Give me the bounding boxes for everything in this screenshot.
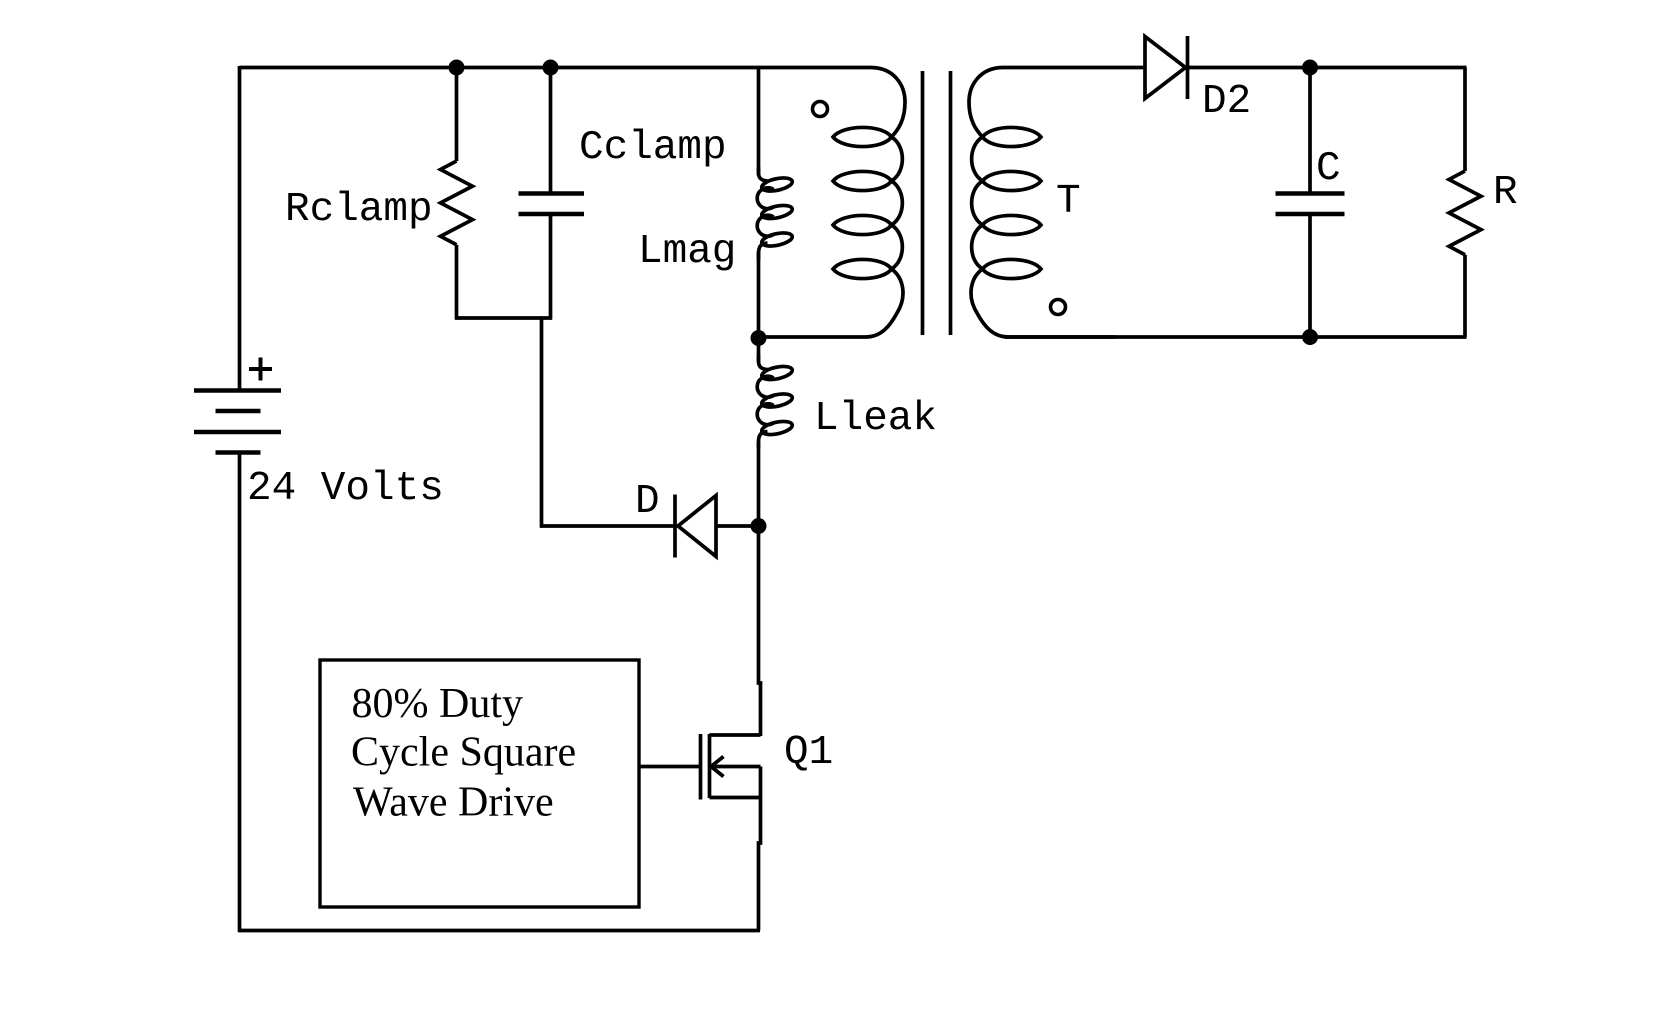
wire gate — [639, 765, 701, 769]
capacitor C — [1276, 194, 1345, 215]
diode D2 triangle — [1145, 37, 1186, 99]
svg-text:Cclamp: Cclamp — [579, 125, 727, 171]
resistor Rclamp zigzag — [441, 161, 473, 245]
svg-text:T: T — [1056, 179, 1081, 225]
svg-text:Cycle Square: Cycle Square — [351, 730, 576, 776]
node top rail / Cclamp junction dot — [543, 60, 559, 76]
battery B1 24 Volts — [194, 391, 281, 453]
svg-text:Wave Drive: Wave Drive — [353, 780, 554, 826]
svg-text:Lleak: Lleak — [814, 396, 937, 442]
wire Cclamp bottom stub — [549, 214, 553, 320]
svg-text:24 Volts: 24 Volts — [247, 466, 444, 512]
transformer T secondary winding — [969, 68, 1116, 338]
wire node to Q1 drain — [759, 526, 761, 736]
transistor Q1 MOSFET — [701, 734, 761, 931]
wire R top stub — [1463, 68, 1467, 172]
wire C top stub — [1308, 68, 1312, 194]
transformer primary polarity dot — [813, 102, 828, 117]
wire left column upper — [238, 66, 242, 390]
svg-text:C: C — [1316, 146, 1341, 192]
resistor R zigzag — [1449, 171, 1481, 255]
wire Lmag top stub — [757, 68, 761, 176]
drive box 80% Duty Cycle Square Wave Drive — [320, 660, 639, 907]
wire Cclamp top stub — [549, 68, 553, 194]
svg-text:R: R — [1493, 170, 1518, 216]
transformer T primary winding — [759, 68, 906, 338]
wire left column lower — [238, 453, 242, 933]
svg-text:D2: D2 — [1202, 79, 1251, 125]
node output- junction dot — [1302, 329, 1318, 345]
wire Lleak to drain node — [757, 442, 761, 526]
node top rail / Rclamp junction dot — [449, 60, 465, 76]
svg-text:80% Duty: 80% Duty — [352, 681, 524, 727]
wire top rail — [240, 66, 873, 70]
svg-text:Rclamp: Rclamp — [285, 187, 433, 233]
diode D cathode bar — [673, 495, 677, 558]
wire clamp bottom joiner — [455, 316, 552, 320]
svg-text:Q1: Q1 — [784, 730, 833, 776]
wire Lmag to node A — [757, 252, 761, 340]
wire bottom rail — [238, 929, 760, 933]
wire Rclamp bottom stub — [455, 245, 459, 320]
diode D triangle — [678, 496, 716, 557]
inductor Lleak coil — [757, 355, 773, 448]
node A junction dot — [751, 330, 767, 346]
diode D2 cathode bar — [1186, 36, 1190, 99]
node drain junction dot — [751, 518, 767, 534]
transformer core — [923, 71, 951, 335]
wire secondary bottom to R — [1005, 335, 1467, 339]
battery plus sign — [249, 358, 272, 381]
wire Rclamp top stub — [455, 68, 459, 162]
svg-text:D: D — [635, 479, 660, 525]
wire diode D to node — [716, 524, 760, 528]
svg-text:Lmag: Lmag — [638, 229, 736, 275]
wire clamp down to diode D — [542, 318, 676, 526]
wire R bottom stub — [1463, 255, 1467, 337]
wire Lleak top stub — [757, 338, 761, 362]
capacitor Cclamp — [519, 194, 585, 215]
inductor Lmag coil — [757, 167, 773, 260]
wire D2 to output top — [1188, 66, 1467, 70]
node output+ junction dot — [1302, 60, 1318, 76]
transformer secondary polarity dot — [1051, 300, 1066, 315]
wire secondary top to D2 — [1002, 66, 1145, 70]
wire C bottom stub — [1308, 214, 1312, 337]
